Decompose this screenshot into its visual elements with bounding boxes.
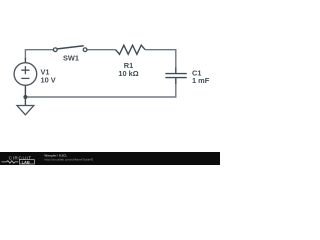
svg-text:http://circuitlab.com/c64annfT: http://circuitlab.com/c64annfTpbaH5 bbox=[44, 157, 93, 161]
logo CIRCUIT bbox=[9, 155, 32, 160]
voltage source stems bbox=[24, 58, 26, 97]
wire switch to resistor bbox=[87, 49, 116, 51]
watermark bar bbox=[0, 152, 220, 165]
wire top-left from source to switch bbox=[25, 50, 53, 59]
logo wire zigzag bbox=[2, 161, 19, 163]
wire resistor to top-right corner bbox=[145, 50, 176, 68]
node junction dot bbox=[23, 95, 27, 99]
svg-text:SW1: SW1 bbox=[63, 53, 79, 62]
voltage source V1 bbox=[14, 63, 37, 86]
capacitor C1 stems bbox=[175, 68, 177, 85]
svg-text:10 kΩ: 10 kΩ bbox=[118, 69, 138, 78]
switch SW1 terminal circles bbox=[53, 48, 86, 52]
resistor R1 bbox=[116, 45, 146, 54]
svg-text:LAB: LAB bbox=[22, 159, 30, 164]
ground bbox=[17, 106, 34, 115]
logo LAB box bbox=[19, 160, 34, 164]
plus sign bbox=[21, 66, 29, 78]
svg-text:1 mF: 1 mF bbox=[192, 76, 210, 85]
wire capacitor to bottom rail bbox=[25, 84, 175, 98]
capacitor C1 plates bbox=[165, 74, 186, 78]
minus sign bbox=[21, 77, 29, 79]
ground stem bbox=[24, 97, 26, 106]
svg-text:10 V: 10 V bbox=[41, 75, 56, 84]
labels bbox=[41, 53, 210, 85]
switch SW1 blade bbox=[57, 46, 83, 49]
